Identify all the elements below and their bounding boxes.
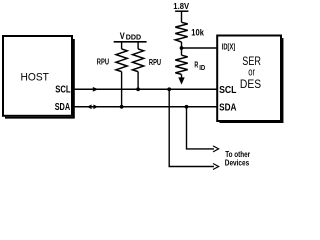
SER/DES box — [217, 36, 283, 124]
wire ID[X] — [182, 47, 217, 49]
svg-text:SCL: SCL — [55, 85, 70, 96]
svg-text:10k: 10k — [191, 28, 204, 39]
wire SCL to other devices — [169, 89, 218, 169]
wire SDA to other devices — [187, 107, 219, 152]
svg-text:DES: DES — [240, 77, 261, 91]
svg-text:1.8V: 1.8V — [173, 2, 189, 11]
svg-text:SDA: SDA — [55, 102, 70, 113]
junction dot SDA branch — [185, 105, 189, 109]
svg-text:HOST: HOST — [21, 72, 49, 84]
HOST box — [3, 36, 75, 119]
SCL direction arrow — [93, 87, 99, 92]
svg-text:SCL: SCL — [219, 85, 236, 96]
resistor RPU (right) — [133, 43, 144, 90]
svg-text:ID[X]: ID[X] — [222, 42, 236, 51]
wire SCL bus — [73, 88, 217, 90]
resistor RPU (left) — [116, 43, 127, 107]
resistor 10k — [175, 11, 187, 48]
svg-text:RPU: RPU — [97, 57, 109, 67]
junction dot SCL branch — [167, 87, 171, 91]
svg-text:SDA: SDA — [219, 103, 236, 114]
wire SDA bus — [73, 106, 217, 108]
junction dot SCL / right RPU — [136, 87, 140, 91]
junction dot SDA / left RPU — [120, 105, 124, 109]
node ID junction dot — [180, 46, 184, 50]
ground arrow (RID) — [178, 77, 184, 84]
1.8V rail bar — [175, 10, 188, 12]
resistor RID — [175, 48, 187, 78]
SDA direction arrows — [87, 105, 92, 110]
svg-text:Devices: Devices — [225, 158, 250, 168]
svg-text:RPU: RPU — [149, 57, 161, 67]
VDDD rail bar — [114, 41, 147, 43]
